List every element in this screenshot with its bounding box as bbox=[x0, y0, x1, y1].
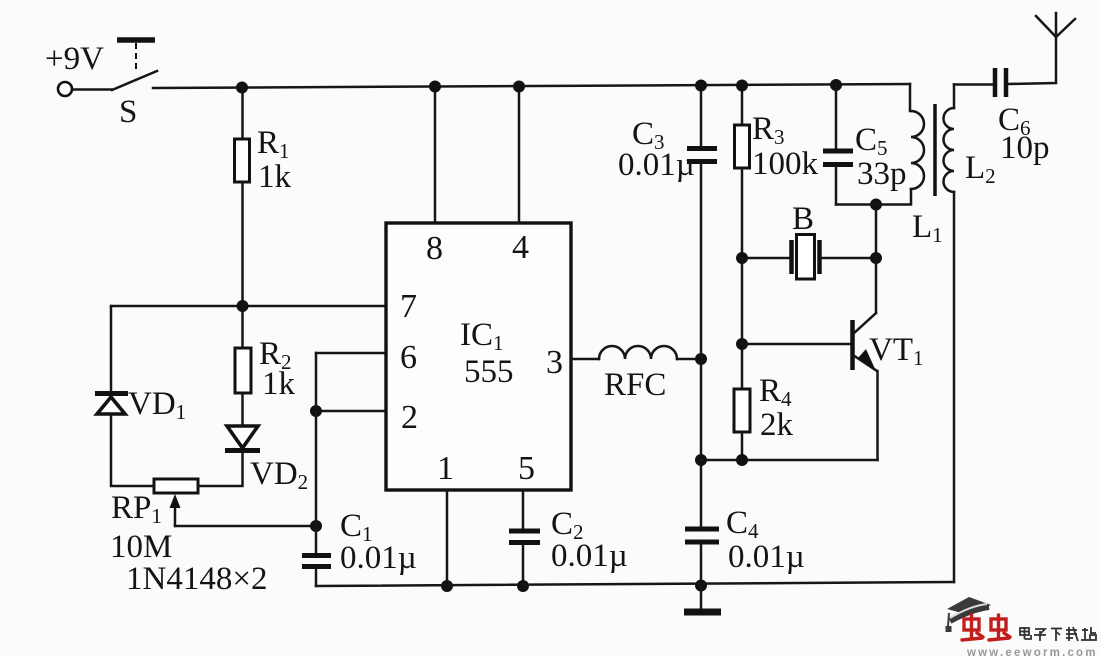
potentiometer RP1 bbox=[154, 479, 198, 493]
resistor R4 bbox=[734, 389, 750, 432]
svg-text:8: 8 bbox=[426, 230, 443, 267]
capacitor C4 bbox=[685, 529, 719, 542]
wire top rail bbox=[153, 84, 910, 88]
wire base bbox=[742, 343, 851, 346]
svg-text:1N4148×2: 1N4148×2 bbox=[126, 561, 267, 597]
logo chongchong char2 bbox=[989, 615, 1010, 640]
logo chongchong char1 bbox=[962, 615, 983, 640]
wire pin1 bbox=[446, 490, 449, 586]
wire C2 bottom lead bbox=[522, 543, 525, 586]
op IC1 555 box bbox=[386, 223, 571, 490]
ground bbox=[684, 586, 721, 612]
wire R4 bottom lead bbox=[741, 432, 744, 460]
wire R1 top lead bbox=[241, 88, 244, 140]
wire terminal to switch bbox=[72, 88, 112, 91]
wire crystal right lead bbox=[822, 257, 876, 260]
wire pin5 to C2 bbox=[522, 490, 525, 530]
crystal B bbox=[792, 235, 820, 280]
wire C4 bottom lead bbox=[700, 543, 703, 586]
node C3 top bbox=[695, 80, 707, 92]
capacitor C3 bbox=[687, 149, 717, 162]
svg-text:RFC: RFC bbox=[604, 367, 666, 403]
resistor R2 bbox=[235, 348, 251, 393]
logo site name glyphs bbox=[1020, 627, 1096, 641]
node ground rail C4 bbox=[695, 580, 707, 592]
node wiper/C1 bbox=[310, 520, 322, 532]
capacitor C5 bbox=[823, 151, 853, 165]
node C5 top bbox=[830, 79, 842, 91]
wire R3 top lead bbox=[741, 86, 744, 126]
svg-text:10M: 10M bbox=[110, 529, 172, 565]
svg-text:0.01µ: 0.01µ bbox=[728, 539, 805, 575]
svg-text:1k: 1k bbox=[262, 366, 296, 402]
svg-text:S: S bbox=[119, 94, 137, 130]
wire R2 to VD2 bbox=[241, 393, 244, 426]
inductor L2 bbox=[944, 85, 954, 193]
wire crystal left lead bbox=[742, 257, 789, 260]
wire L2 bottom column bbox=[953, 192, 956, 582]
svg-text:3: 3 bbox=[546, 344, 563, 381]
switch S arm bbox=[112, 71, 157, 90]
node pin1 ground rail bbox=[441, 580, 453, 592]
wire C5 top lead bbox=[835, 85, 838, 149]
wire RFC to node bbox=[677, 358, 701, 361]
svg-text:100k: 100k bbox=[752, 146, 819, 182]
svg-text:7: 7 bbox=[400, 288, 417, 325]
node emitter rail R4 bbox=[736, 454, 748, 466]
node base bbox=[736, 338, 748, 350]
wire RP1 wiper to node bbox=[175, 525, 316, 528]
svg-text:B: B bbox=[792, 201, 814, 237]
svg-text:0.01µ: 0.01µ bbox=[551, 538, 628, 574]
svg-text:4: 4 bbox=[512, 229, 529, 266]
diode VD1 bbox=[95, 394, 128, 415]
node collector column crystal bbox=[870, 252, 882, 264]
svg-text:6: 6 bbox=[400, 339, 417, 376]
wire pin2 bbox=[316, 410, 386, 413]
switch S button bar bbox=[117, 37, 155, 43]
node L1 bottom bbox=[870, 199, 882, 211]
transistor VT1 bbox=[853, 313, 878, 460]
node R1 top bbox=[236, 82, 248, 94]
wire 6-2-C1 column bbox=[315, 353, 318, 553]
svg-text:2k: 2k bbox=[760, 407, 794, 443]
node emitter rail left bbox=[695, 454, 707, 466]
wire collector column bbox=[875, 205, 878, 314]
wire pin3 bbox=[571, 358, 599, 361]
node pin4 bbox=[513, 81, 525, 93]
wire R2 top lead bbox=[241, 306, 244, 348]
RP1 wiper arrow bbox=[170, 494, 181, 526]
logo graduation cap bbox=[946, 597, 992, 632]
svg-text:0.01µ: 0.01µ bbox=[340, 540, 417, 576]
wire C1 bottom lead bbox=[315, 567, 318, 586]
svg-text:33p: 33p bbox=[857, 156, 907, 192]
switch S stem bbox=[135, 43, 137, 72]
svg-text:10p: 10p bbox=[1000, 130, 1050, 166]
wire pin7 rail bbox=[111, 305, 386, 308]
antenna bbox=[1036, 13, 1075, 37]
inductor L1 bbox=[910, 84, 924, 189]
wire R3 to R4 column bbox=[741, 168, 744, 389]
diode VD2 bbox=[225, 426, 260, 451]
wire C5-L1 bottom link bbox=[836, 189, 911, 205]
wire pin4 bbox=[518, 87, 521, 224]
node pin8 bbox=[429, 81, 441, 93]
inductor RFC bbox=[599, 346, 677, 359]
terminal circle bbox=[58, 82, 72, 96]
capacitor C6 bbox=[995, 68, 1006, 97]
svg-text:www.eeworm.com: www.eeworm.com bbox=[966, 647, 1098, 657]
wire C5 bottom lead bbox=[835, 166, 838, 205]
resistor R3 bbox=[735, 125, 750, 168]
svg-text:555: 555 bbox=[464, 354, 514, 390]
wire C3 top lead bbox=[700, 86, 703, 148]
node RFC bbox=[695, 353, 707, 365]
wire C6 to antenna bbox=[1008, 37, 1056, 84]
node C2 ground rail bbox=[517, 580, 529, 592]
node crystal left bbox=[736, 252, 748, 264]
wire emitter rail bbox=[701, 459, 878, 462]
wire R1 bottom lead bbox=[241, 182, 244, 306]
wire pin6 bbox=[316, 352, 386, 355]
node pin2 bbox=[310, 405, 322, 417]
svg-text:5: 5 bbox=[518, 450, 535, 487]
capacitor C1 bbox=[302, 556, 331, 567]
node R3 top bbox=[736, 80, 748, 92]
transformer core bbox=[933, 104, 937, 196]
svg-text:+9V: +9V bbox=[45, 41, 104, 77]
svg-text:1k: 1k bbox=[258, 159, 292, 195]
node R1/pin7 bbox=[237, 300, 249, 312]
wire VD1 to RP1 bbox=[111, 414, 154, 486]
wire VD1 branch bbox=[110, 306, 113, 392]
wire C3 to C4 column bbox=[700, 163, 703, 528]
wire ground rail bbox=[316, 582, 954, 586]
resistor R1 bbox=[235, 139, 250, 182]
svg-text:2: 2 bbox=[401, 399, 418, 436]
wire pin8 bbox=[434, 87, 437, 224]
capacitor C2 bbox=[509, 531, 540, 543]
svg-text:0.01µ: 0.01µ bbox=[618, 147, 695, 183]
wire L2 to C6 bbox=[954, 83, 992, 86]
wire VD2 to RP1 bbox=[198, 453, 243, 486]
svg-text:1: 1 bbox=[437, 450, 454, 487]
